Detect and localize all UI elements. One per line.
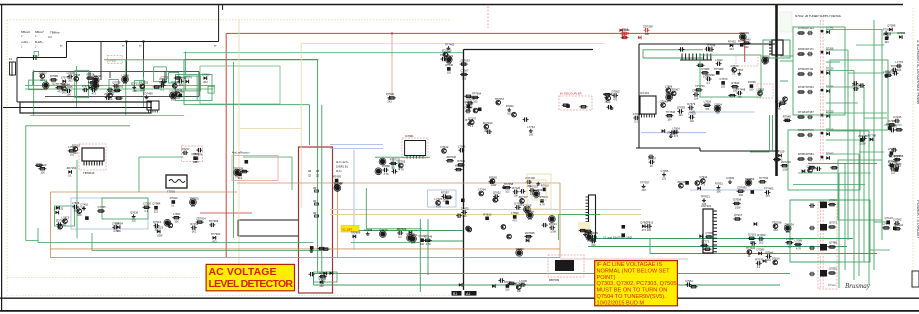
- ground7082 (line filter row): [159, 77, 167, 89]
- standby supply loop orange: [51, 183, 561, 258]
- capacitor C7352 (reg support parts): [382, 164, 390, 176]
- resistor R7363 (detector lower parts): [318, 247, 326, 249]
- diode D7379 (aux low parts): [699, 234, 702, 238]
- relay RY7301: [314, 272, 338, 282]
- resistor R7074 (sense parts): [446, 155, 457, 162]
- diode D7733 (bottom row parts A): [459, 283, 462, 287]
- svg-text:R7972: R7972: [390, 158, 398, 162]
- svg-text:D7367: D7367: [648, 156, 656, 160]
- wire hot ground top: [464, 49, 594, 51]
- svg-text:C7356: C7356: [661, 169, 669, 173]
- diode D7037 (output jack 1): [887, 24, 896, 32]
- svg-text:Q7613: Q7613: [153, 220, 162, 224]
- svg-text:473: 473: [674, 135, 679, 138]
- capacitor C7878 (zener on red bus): [620, 28, 630, 40]
- svg-text:10K: 10K: [67, 94, 72, 97]
- capacitor C7430 (line filter row): [92, 80, 100, 92]
- capacitor C7795 (output jack 3): [893, 115, 901, 123]
- svg-text:R7806: R7806: [798, 152, 806, 156]
- component U7990 (secondary rect parts): [538, 195, 548, 207]
- capacitor C7918 (sub board parts): [784, 222, 794, 234]
- component U7883 (snubber right top): [748, 80, 756, 92]
- capacitor C7758 (output jack 5): [888, 159, 898, 167]
- transistor Q7516 (opto feedback parts): [168, 223, 173, 228]
- sub column dashed box: [818, 202, 837, 289]
- capacitor C7562 (bias network): [407, 232, 415, 241]
- zone marker A1: [465, 291, 477, 296]
- svg-text:TP7634: TP7634: [666, 110, 676, 114]
- svg-text:Q7143: Q7143: [885, 216, 894, 220]
- resistor R7673 (line filter row): [174, 77, 182, 79]
- resistor R7097 (output jack 6): [893, 223, 903, 230]
- B+ decoupler box: [559, 92, 592, 111]
- wire green stub y87: [826, 86, 864, 88]
- note AC VOLTAGE LEVEL DETECTOR: [206, 264, 294, 290]
- capacitor C7271 (pwm controller parts): [633, 112, 641, 124]
- ground bar: [20, 102, 151, 113]
- component U7111 (bottom row parts B): [628, 280, 638, 288]
- diode D7366 (relay contacts): [318, 276, 327, 288]
- svg-text:IC7301: IC7301: [405, 134, 414, 138]
- svg-text:TP7904: TP7904: [472, 92, 482, 96]
- svg-text:ZD7534: ZD7534: [784, 222, 794, 226]
- svg-text:C7290: C7290: [516, 247, 524, 251]
- svg-text:L7923: L7923: [888, 147, 896, 151]
- relay cell row 7: [797, 152, 834, 161]
- wire green link y200: [790, 199, 859, 201]
- svg-text:LEVEL DETECTOR: LEVEL DETECTOR: [209, 278, 294, 290]
- component U7998 (parts right of Y1): [621, 233, 625, 237]
- ground7120 (vert line taps upper): [466, 102, 474, 109]
- capacitor C7864 (secondary rect parts): [514, 202, 522, 210]
- wire fuse drop 1: [126, 42, 128, 78]
- ground7457 (output jack 1): [884, 31, 892, 38]
- wire green bus row 1: [25, 85, 215, 87]
- svg-text:B-dZ)--: B-dZ)--: [35, 40, 44, 44]
- filter bus drops: [33, 72, 199, 97]
- pin header row: [680, 54, 712, 61]
- capacitor C7359 (output jack 2): [892, 71, 898, 75]
- ground7349 (snubber right top): [736, 68, 744, 75]
- capacitor C7717 (vert line taps): [456, 214, 462, 218]
- svg-text:C7012: C7012: [202, 72, 210, 76]
- resistor R7041 (vert line taps upper): [464, 95, 472, 97]
- svg-text:ZD7153: ZD7153: [67, 166, 77, 170]
- diode D7058 (between section parts): [802, 169, 805, 173]
- svg-text:2K2: 2K2: [642, 189, 647, 192]
- svg-text:Q7202: Q7202: [762, 55, 771, 59]
- svg-text:R7452: R7452: [728, 40, 736, 44]
- wire green left loop: [26, 126, 130, 241]
- resistor R7184 (isolation lower taps): [773, 158, 781, 160]
- svg-text:D7565: D7565: [612, 90, 620, 94]
- transistor Q7995 (standby regulator row): [58, 224, 63, 229]
- detector divider labels pair: [308, 169, 319, 178]
- capacitor C7695 (secondary rect parts): [533, 188, 543, 200]
- resistor R7437 (bias network): [424, 235, 433, 247]
- wire green left drop 2b: [125, 60, 127, 115]
- svg-text:ZD7359: ZD7359: [643, 24, 653, 28]
- svg-text:D7795: D7795: [886, 122, 894, 126]
- wire red dashed rail 3: [819, 200, 821, 289]
- diode D7998 (parts right of Y1): [640, 220, 649, 232]
- wire green low link: [351, 242, 420, 244]
- svg-text:1/2W: 1/2W: [491, 184, 497, 187]
- wire green left drop 1: [33, 70, 35, 115]
- wire red dashed rail 1: [819, 20, 821, 162]
- svg-text:TP7944: TP7944: [894, 223, 904, 227]
- svg-text:AC VOLTAGE: AC VOLTAGE: [209, 266, 277, 278]
- resistor R7431 (snubber right top): [697, 64, 705, 66]
- wire fuse drop 2: [143, 42, 145, 78]
- wire AC-N branch: [3, 107, 152, 109]
- svg-text:R7924: R7924: [806, 85, 814, 89]
- svg-text:2K2: 2K2: [774, 229, 779, 232]
- capacitor C7152 (standby regulator row): [112, 222, 120, 234]
- svg-text:104: 104: [73, 152, 78, 155]
- component U7223 (opto feedback parts): [170, 196, 178, 208]
- svg-text:ZD7296: ZD7296: [705, 73, 715, 77]
- svg-text:1/2W: 1/2W: [442, 199, 448, 202]
- svg-text:R7001: R7001: [457, 159, 465, 163]
- svg-text:100: 100: [420, 243, 425, 246]
- capacitor C7979 (sub board parts): [750, 241, 756, 245]
- svg-text:C7034: C7034: [714, 103, 722, 107]
- svg-text:222: 222: [662, 177, 667, 180]
- svg-text:TP7296: TP7296: [772, 220, 782, 224]
- svg-text:10K: 10K: [174, 221, 179, 224]
- svg-text:D7035: D7035: [748, 80, 756, 84]
- svg-text:473: 473: [194, 161, 199, 164]
- wire yellow net 2: [330, 214, 641, 216]
- capacitor C7931 (line filter row): [90, 84, 100, 96]
- svg-text:104: 104: [694, 97, 699, 100]
- wire green link y33: [884, 32, 905, 34]
- svg-text:0.1: 0.1: [707, 82, 711, 85]
- wire green reg web: [366, 157, 430, 229]
- svg-text:R7851: R7851: [715, 182, 723, 186]
- varistor D7002 box: [108, 56, 123, 64]
- svg-text:103: 103: [721, 86, 726, 89]
- svg-text:2K2: 2K2: [666, 93, 671, 96]
- svg-text:C7813: C7813: [645, 221, 653, 225]
- diode D7797 (output jack 1): [897, 31, 905, 39]
- resistor R7831 (sense parts low): [445, 196, 453, 198]
- resistor R7403 (reg support parts): [389, 158, 398, 170]
- sheet lower rule: [0, 310, 919, 312]
- resistor R7130 (sense parts): [455, 164, 465, 171]
- capacitor C7636 (secondary rect parts): [488, 180, 494, 184]
- capacitor C7961 (below rect parts): [648, 156, 656, 168]
- svg-text:TP7397: TP7397: [640, 181, 650, 185]
- wire green link y125: [884, 124, 902, 126]
- svg-text:TP7840: TP7840: [538, 195, 548, 199]
- capacitor C7726 (aux secondary parts): [745, 177, 755, 186]
- transistor Q7952 (ic support parts): [665, 85, 673, 97]
- wire filter bottom bus: [45, 96, 199, 98]
- svg-text:A1: A1: [466, 292, 470, 296]
- capacitor C7476 (output jack 2): [895, 60, 903, 72]
- svg-text:R7708: R7708: [868, 134, 876, 138]
- svg-text:473: 473: [737, 96, 742, 99]
- wire cream mid: [240, 128, 301, 130]
- wire green left web3: [76, 160, 78, 239]
- capacitor C7558 (snubber right top): [693, 89, 701, 101]
- transistor Q7861 (secondary rect parts): [478, 188, 486, 196]
- wire green left drop 2d: [196, 76, 198, 100]
- svg-text:4.7K: 4.7K: [436, 206, 441, 209]
- wire green net x233: [233, 62, 235, 238]
- svg-text:Q7636: Q7636: [130, 211, 139, 215]
- svg-text:T7001: T7001: [167, 190, 175, 194]
- component U7488 (secondary rect parts): [483, 212, 491, 220]
- diode D7915 (bottom row parts A): [492, 284, 495, 288]
- svg-text:0.1: 0.1: [470, 125, 474, 128]
- left inner green box: [55, 206, 75, 226]
- connector CN7201: [701, 204, 717, 253]
- capacitor C7130 (bias network): [410, 233, 418, 245]
- green loop D: [830, 60, 888, 130]
- svg-text:104: 104: [690, 120, 695, 123]
- connector CN7005: [769, 40, 783, 55]
- junction J1 on AC bus: [126, 41, 128, 43]
- svg-text:L7626: L7626: [704, 100, 712, 104]
- svg-text:1/2W: 1/2W: [157, 234, 163, 237]
- svg-text:L7904: L7904: [672, 126, 680, 130]
- ground7424 (blue line parts): [667, 130, 677, 137]
- svg-text:0.1: 0.1: [391, 166, 395, 169]
- svg-text:1N5R1 B1: 1N5R1 B1: [336, 165, 349, 169]
- svg-text:2K2: 2K2: [203, 81, 208, 84]
- capacitor C7751 (secondary rect parts): [524, 204, 532, 216]
- transistor Q7385 (sub board parts): [772, 257, 780, 265]
- svg-text:10K: 10K: [529, 134, 534, 137]
- svg-text:Q7748: Q7748: [174, 88, 183, 92]
- connector CN7001: [79, 144, 106, 175]
- svg-text:R7353: R7353: [757, 233, 765, 237]
- svg-text:1/2W: 1/2W: [860, 143, 866, 146]
- wire blue stub b: [330, 148, 383, 150]
- wire blue net 3: [353, 150, 355, 250]
- capacitor C7259 (caps near red end): [739, 31, 749, 40]
- tap labels rows: [336, 160, 349, 173]
- ground7195 (primary snubber): [527, 125, 535, 137]
- svg-text:D7475: D7475: [461, 207, 469, 211]
- right green loop a: [700, 55, 761, 97]
- ground7735 (corner parts): [445, 43, 455, 55]
- capacitor C7746 (bottom row parts B): [609, 283, 615, 287]
- component U7422 (output jack 6): [893, 227, 897, 231]
- svg-text:R7671: R7671: [319, 271, 327, 275]
- svg-text:4.7K: 4.7K: [540, 203, 545, 206]
- wire green rail x874: [873, 20, 875, 270]
- relay cell row 2: [797, 47, 834, 56]
- transistor Q7724 (secondary rect parts): [489, 175, 497, 187]
- svg-text:TP7821: TP7821: [701, 195, 711, 199]
- resistor R7467 (line filter row): [153, 86, 161, 88]
- component U7636 (detector taps): [333, 175, 341, 183]
- svg-text:1/2W: 1/2W: [550, 231, 556, 234]
- component U7130 (snubber right top): [714, 67, 724, 75]
- resistor R7490 (line filter row): [115, 97, 123, 99]
- svg-text:473: 473: [766, 195, 771, 198]
- svg-text:L7640: L7640: [743, 37, 751, 41]
- resistor R7232 (red drop parts): [388, 97, 396, 99]
- svg-text:TP7430: TP7430: [891, 64, 901, 68]
- svg-text:TP7831: TP7831: [189, 196, 199, 200]
- component U7436 (detector lower parts): [310, 246, 314, 250]
- svg-text:3Z: 3Z: [308, 174, 311, 178]
- resistor R7600 (sub board parts): [733, 213, 742, 220]
- component U7618 (vert line taps): [461, 199, 465, 203]
- capacitor C7041 (primary snubber): [465, 105, 473, 113]
- resistor R7097 (aux parts): [525, 231, 536, 243]
- ground7628 (line filter row): [131, 82, 141, 94]
- resistor R7748 (line filter row): [113, 85, 123, 92]
- svg-text:R7860: R7860: [382, 164, 390, 168]
- regulator IC7301: [402, 134, 428, 159]
- svg-text:4.7K: 4.7K: [399, 168, 404, 171]
- ground7660 (corner parts): [448, 56, 452, 60]
- ground7019 (standby regulator row): [80, 203, 88, 210]
- capacitor C7024 (primary snubber): [523, 117, 529, 121]
- svg-text:103: 103: [505, 190, 510, 193]
- capacitor C7908 (line filter row): [177, 76, 185, 88]
- wire red branch detector: [200, 212, 252, 214]
- wire green stub y29.5: [826, 29, 882, 31]
- capacitor C7401 (line filter row): [170, 90, 178, 102]
- component U7548 (caps near red end): [738, 39, 746, 47]
- svg-text:Q7355: Q7355: [98, 205, 107, 209]
- svg-text:D7362: D7362: [893, 218, 901, 222]
- ground7976 (aux secondary parts): [701, 195, 711, 207]
- svg-text:10K: 10K: [534, 197, 539, 200]
- transistor Q7350 (standby regulator row): [76, 205, 86, 217]
- sense outline blue: [428, 190, 457, 207]
- svg-text:R7287: R7287: [441, 191, 449, 195]
- capacitor C7805 (rectifier parts mid): [586, 231, 595, 243]
- resistor R7808 (between section parts): [808, 167, 816, 169]
- wire bus drop x101: [100, 42, 102, 81]
- svg-text:R7493: R7493: [333, 175, 341, 179]
- pale green patch top: [780, 12, 792, 32]
- resistor R7054 (output jack 3): [888, 119, 897, 126]
- capacitor C7495 (snubber right top): [714, 103, 722, 115]
- transistor Q7283 (bridge rectifier group): [72, 143, 80, 155]
- svg-text:ZD7488: ZD7488: [858, 134, 868, 138]
- diode D7154 (line filter row): [202, 72, 210, 84]
- wire green pair lower 1: [314, 273, 791, 275]
- AC detector outline box: [299, 147, 333, 293]
- resistor R7333 (bridge rectifier group): [68, 145, 76, 157]
- inlet fuse F7001: [9, 57, 16, 75]
- resistor R7057 (aux low parts): [700, 240, 709, 252]
- wire net STBY vertical: [218, 5, 220, 42]
- resistor R7929 (bottom row parts A): [508, 282, 516, 284]
- svg-text:1K: 1K: [63, 224, 66, 227]
- resistor R7976 (b+ parts): [562, 104, 570, 106]
- wire green left link 3: [780, 80, 788, 82]
- resistor R7807 (snubber right top): [703, 100, 711, 112]
- svg-text:100: 100: [505, 289, 510, 292]
- relay cell row 3: [797, 67, 834, 76]
- capacitor C7147 (line filter row): [112, 80, 121, 92]
- resistor R7505 (aux pink parts): [240, 170, 248, 172]
- snubber outline box: [182, 146, 203, 162]
- capacitor C7694 (ic support parts): [688, 111, 696, 123]
- capacitor C7212 (bias network): [397, 227, 407, 239]
- component U7803 (aux secondary parts): [751, 190, 755, 194]
- resistor R7846 (opto feedback parts): [196, 216, 207, 223]
- svg-text:C7526: C7526: [143, 202, 151, 206]
- wire green bus row 2: [25, 88, 213, 90]
- svg-text:Q7488: Q7488: [829, 241, 837, 245]
- component U7129 (below rect parts): [685, 181, 689, 185]
- green loop B: [788, 130, 860, 190]
- capacitor C7071 (line filter row): [67, 71, 75, 83]
- svg-text:222: 222: [745, 46, 750, 49]
- diode D7112 (aux parts): [526, 239, 529, 243]
- wire green mid verticals: [358, 219, 463, 292]
- svg-text:MUST BE ON TO TURN ON: MUST BE ON TO TURN ON: [597, 288, 668, 294]
- resistor R7642 (opto feedback parts): [172, 212, 180, 224]
- svg-text:Q7041: Q7041: [660, 99, 669, 103]
- wire filter top bus: [33, 71, 199, 73]
- svg-text:L7506: L7506: [73, 73, 81, 77]
- wire green left drop 2: [75, 66, 77, 107]
- wire blue net 1: [692, 111, 755, 113]
- svg-text:1/2W: 1/2W: [735, 206, 741, 209]
- wire net 9V teal: [184, 52, 464, 54]
- resistor R7355 (sub board parts): [785, 237, 793, 249]
- transistor Q7079 (isolation taps): [783, 97, 788, 102]
- ground7682 (detector lower parts): [310, 249, 314, 253]
- ground7534 (bottom row parts B): [623, 280, 633, 292]
- svg-text:ZD7633: ZD7633: [460, 58, 470, 62]
- resistor R7681 (snubber right top): [701, 67, 710, 79]
- wire green link y222: [874, 221, 890, 223]
- capacitor C7712 (line filter row): [82, 84, 90, 92]
- diode D7553 (line filter row): [184, 76, 193, 84]
- detector resistor taps: [313, 186, 319, 192]
- capacitor C7962 (reg support parts): [392, 169, 398, 173]
- svg-text:2K2: 2K2: [321, 279, 326, 282]
- capacitor C7257 (snubber right top): [705, 73, 715, 85]
- svg-text:10K: 10K: [645, 33, 650, 36]
- svg-text:R7126: R7126: [512, 186, 520, 190]
- capacitor C7863 (cap bank upper): [852, 83, 862, 91]
- svg-text:473: 473: [642, 229, 647, 232]
- svg-text:10K: 10K: [514, 195, 519, 198]
- feedback inner green rect: [200, 66, 280, 104]
- resistor R7226 (caps near red end): [743, 37, 751, 49]
- wire light green net: [30, 114, 184, 116]
- svg-text:222: 222: [93, 88, 98, 91]
- capacitor C7960 (output jack 2): [891, 64, 901, 72]
- capacitor C7031 (secondary rect parts): [525, 176, 535, 188]
- snubber dashed box: [736, 55, 758, 66]
- svg-text:C7954: C7954: [115, 221, 123, 225]
- cream stage box: [527, 174, 551, 209]
- svg-text:TP7658: TP7658: [236, 168, 246, 172]
- resistor R7823 (output jack 3): [895, 129, 903, 131]
- svg-text:D7674: D7674: [465, 100, 473, 104]
- capacitor C7190 (relay contacts): [309, 272, 315, 276]
- svg-text:Q7683: Q7683: [677, 106, 686, 110]
- svg-text:222: 222: [132, 219, 137, 222]
- resistor R7021 (snubber right top): [695, 84, 705, 91]
- capacitor C7085 (sub board parts): [755, 258, 763, 270]
